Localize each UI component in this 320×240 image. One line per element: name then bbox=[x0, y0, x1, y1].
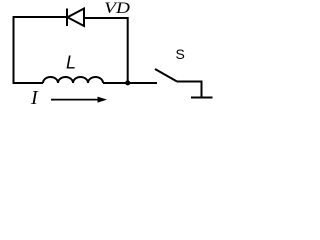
svg-text:I: I bbox=[30, 87, 39, 109]
svg-text:S: S bbox=[176, 46, 185, 62]
svg-text:VD: VD bbox=[104, 0, 130, 17]
svg-text:L: L bbox=[66, 53, 76, 73]
